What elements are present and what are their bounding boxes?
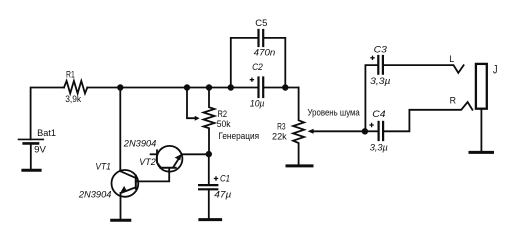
svg-text:L: L — [449, 54, 454, 65]
svg-text:22k: 22k — [272, 132, 287, 143]
wire rail R1 to C2 — [87, 87, 258, 89]
svg-text:3,3µ: 3,3µ — [370, 76, 391, 87]
svg-text:9V: 9V — [34, 145, 46, 156]
transistor VT2 — [157, 146, 183, 172]
capacitor C4 — [365, 130, 378, 132]
node dot rail-C5 left — [228, 84, 234, 90]
svg-text:VT1: VT1 — [95, 161, 111, 172]
arrow VT1 emitter — [121, 186, 127, 192]
svg-text:R1: R1 — [66, 69, 75, 80]
battery Bat1 — [19, 138, 44, 140]
node dot VT2emitter-R2-C1 — [206, 151, 212, 157]
wire R2 wiper — [187, 88, 195, 119]
svg-text:50k: 50k — [217, 119, 231, 130]
svg-text:C5: C5 — [255, 18, 267, 29]
svg-text:VT2: VT2 — [139, 157, 156, 168]
resistor R2 — [204, 88, 215, 154]
arrow R3 wiper — [308, 129, 314, 134]
arrow VT2 emitter — [175, 154, 182, 160]
capacitor C2 — [257, 78, 259, 98]
plus C4 — [369, 123, 373, 127]
node dot rail-C5 right — [282, 84, 288, 90]
svg-text:470n: 470n — [254, 47, 276, 58]
svg-text:J: J — [493, 63, 498, 77]
wire VT1 collector — [119, 88, 121, 170]
wire rail C2 to corner — [264, 87, 299, 89]
wire C4 to R contact — [384, 102, 473, 131]
wire R3 wiper to C4 node — [313, 130, 365, 132]
plus C2 — [250, 78, 254, 82]
arrow R2 wiper — [195, 116, 200, 121]
transistor VT1 — [112, 170, 139, 197]
ground jack — [470, 151, 493, 154]
svg-text:3,3µ: 3,3µ — [370, 142, 389, 153]
plus C3 — [370, 56, 374, 60]
ground battery — [23, 169, 40, 172]
plus C1 — [214, 176, 218, 180]
svg-text:Генерация: Генерация — [218, 131, 259, 142]
resistor R3 — [293, 88, 304, 165]
wire VT1 base to VT2 base — [136, 168, 169, 182]
svg-text:C4: C4 — [372, 109, 385, 120]
wire C3 to L contact — [384, 65, 464, 73]
node dot rail-wiper — [184, 84, 190, 90]
svg-text:47µ: 47µ — [214, 189, 232, 200]
ground VT1 — [112, 219, 130, 222]
svg-text:Уровень шума: Уровень шума — [308, 107, 361, 118]
svg-text:C2: C2 — [252, 62, 263, 73]
wire VT2 emitter to node — [182, 153, 209, 155]
capacitor C5 — [257, 30, 259, 46]
svg-text:C3: C3 — [374, 45, 388, 56]
wire node up to C3 — [365, 65, 378, 131]
wire C5 loop — [231, 38, 258, 88]
svg-text:2N3904: 2N3904 — [123, 139, 156, 150]
jack J body — [476, 64, 487, 109]
wire top rail left segment — [31, 88, 64, 140]
resistor R1 — [64, 81, 87, 94]
node dot rail-R2 — [206, 84, 212, 90]
ground C1 — [200, 218, 221, 221]
node dot wiper-C4-C3 — [362, 128, 368, 134]
capacitor C3 — [377, 56, 379, 74]
svg-text:Bat1: Bat1 — [37, 128, 56, 139]
svg-text:2N3904: 2N3904 — [78, 190, 111, 201]
node dot rail-VT1 — [117, 84, 123, 90]
ground R3 — [287, 164, 312, 167]
capacitor C1 — [208, 154, 210, 185]
svg-text:C1: C1 — [220, 173, 230, 184]
svg-text:10µ: 10µ — [250, 98, 265, 109]
svg-text:3,9k: 3,9k — [65, 94, 81, 105]
svg-text:R: R — [450, 96, 457, 107]
